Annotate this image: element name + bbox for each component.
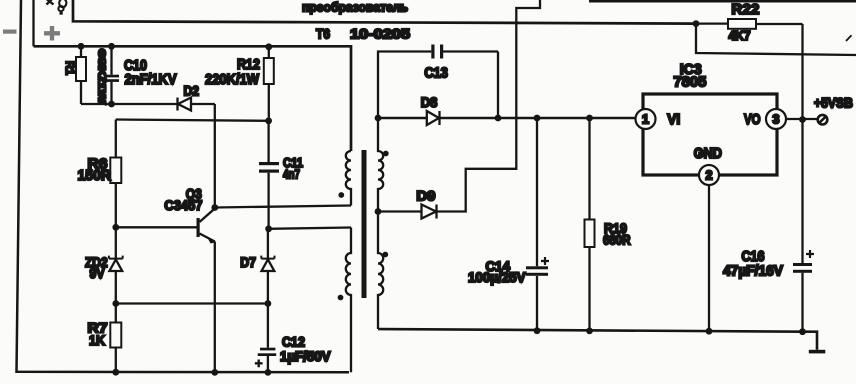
svg-text:3: 3 [773,113,780,127]
node: junction D8 anode [375,115,382,122]
wire: centre tap to D9 [378,210,422,212]
node: pin2 ground dot [706,328,713,335]
wire: D8 rail to IC3 pin1 [378,117,636,120]
node: junction base/R6 [112,224,119,231]
svg-text:D8: D8 [421,94,438,110]
svg-text:150R: 150R [78,167,112,184]
wire: ZD2-D7 bottom rail [116,302,268,304]
node: R19 bottom dot [586,328,593,335]
svg-text:2nF/1KV: 2nF/1KV [125,71,177,88]
wire: C11 node to transformer lower primary [269,228,351,229]
svg-text:VO: VO [744,111,761,128]
svg-text:4n7: 4n7 [283,167,300,182]
pin 2 [699,165,719,185]
node: C16 bottom dot [799,328,806,335]
node: junction R12/C11 [265,117,272,124]
wire: R1 bottom to D2 anode [81,103,177,105]
svg-text:преобразователь: преобразователь [302,0,408,14]
decorative: small diagonal tick right edge [846,35,852,41]
resistor R1 [78,43,85,50]
pin 3 [766,109,786,129]
node: junction R1/C10/D2 [108,101,115,108]
diode D7 [267,229,269,304]
svg-text:1µF/50V: 1µF/50V [280,348,331,364]
svg-text:47µF/16V: 47µF/16V [723,263,783,279]
resistor R22 [728,19,756,29]
transformer T6 primary top winding [346,151,351,206]
transformer T6 secondary bottom winding [378,212,383,330]
svg-text:R22: R22 [731,1,759,18]
node: plus label [44,26,60,41]
wire: secondary ground rail [378,329,817,350]
svg-text:R1: R1 [63,61,77,75]
diode D9 [422,205,437,219]
decorative: cropped box bottom edge top right [589,0,856,3]
svg-text:C13: C13 [424,65,448,81]
wire: R22 to +5VSB node vertical [696,24,803,263]
svg-text:7805: 7805 [673,73,706,90]
decorative: cropped text fragment 8. [59,0,66,7]
node: junction dot R22 left [693,20,700,27]
svg-text:T6: T6 [316,26,330,42]
svg-text:220K/1W: 220K/1W [205,71,260,88]
svg-text:4K7: 4K7 [729,28,751,43]
transformer T6 secondary top winding [378,118,383,212]
svg-text:D7: D7 [240,254,256,270]
capacitor C16 [801,273,803,332]
wire: Q3 base wire [116,226,197,228]
svg-text:10-0205: 10-0205 [350,26,410,42]
wire: pin2 to ground rail [708,185,710,331]
capacitor C11 [267,121,269,229]
resistor R19 [586,115,593,122]
svg-text:D2: D2 [184,82,200,98]
transformer T6 core [362,150,367,298]
node: winding polarity dots [338,192,344,198]
capacitor C12 [267,304,269,373]
transformer T6 primary bottom winding [346,228,351,373]
resistor R12 [265,43,272,50]
node: minus label [3,30,17,34]
wire: rail from R22 junction down and right to edge [696,24,856,55]
svg-text:2: 2 [706,169,713,183]
pin 1 [636,109,656,129]
node: +5VSB junction dot [799,116,806,123]
wire: pin3 to +5VSB terminal [786,118,817,120]
capacitor C14 [534,115,541,122]
node: junction ZD2/R7 [112,300,119,307]
node: junction C11/D7 [265,225,272,232]
ground [809,350,826,354]
diode D2 [176,98,178,111]
wire: collector line to transformer [215,206,351,208]
node: ground rail dots [112,369,119,376]
wire: vertical stub entering top at x=33 [32,0,34,46]
wire: upper rail from converter box down at x=73 [73,0,696,24]
wire: left negative bus + bottom ground rail of primary side [17,0,350,372]
node: junction D7/C12 [265,300,272,307]
svg-text:9V: 9V [90,265,106,281]
resistor R6 [115,120,117,228]
wire: R6 corner to R12 bottom node [116,120,269,121]
node: C14 bottom dot [534,327,541,334]
diode D8 [427,111,439,125]
node: +5VSB output terminal [818,115,828,125]
svg-text:VI: VI [667,111,680,128]
op-amp IC3 regulator box [643,94,777,175]
capacitor C10 [108,43,115,50]
svg-text:C3457: C3457 [164,197,202,213]
svg-text:100µ/25V: 100µ/25V [468,269,526,285]
svg-text:D9: D9 [416,187,435,203]
wire: D9 output up and out of top edge [437,0,541,212]
node: junction C13 right [495,115,502,122]
svg-text:1: 1 [642,113,649,127]
wire: top +310V rail to transformer primary [34,46,352,151]
decorative: cropped text fragment x [46,0,54,5]
transistor Q3 [211,204,218,211]
svg-text:+5VSB: +5VSB [814,95,853,111]
svg-text:680R: 680R [603,232,631,248]
svg-text:GND: GND [694,145,722,162]
node: junction transformer centre tap [375,208,382,215]
zener ZD2 [115,227,117,303]
resistor R7 [115,304,117,373]
capacitor C13 snubber loop [378,52,498,119]
svg-text:1K: 1K [89,332,105,348]
